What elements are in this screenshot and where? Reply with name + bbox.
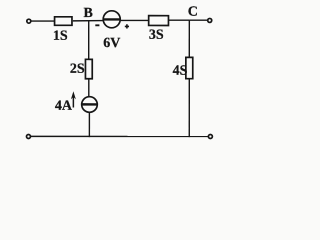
voltage source 6V bar bbox=[103, 18, 120, 20]
terminal bottom-right bbox=[208, 135, 212, 139]
wire top-left segment bbox=[31, 20, 54, 22]
resistor 2S bbox=[85, 59, 92, 78]
svg-text:1S: 1S bbox=[53, 29, 68, 44]
terminal top-right bbox=[208, 18, 212, 22]
wire bottom rail bbox=[31, 135, 208, 137]
svg-text:4S: 4S bbox=[173, 64, 188, 79]
wire node C branch vertical bbox=[188, 20, 190, 56]
svg-text:3S: 3S bbox=[149, 28, 164, 43]
resistor 1S bbox=[55, 17, 72, 26]
current direction arrow bbox=[71, 91, 76, 107]
wire 6V to 3S bbox=[120, 19, 149, 21]
terminal bottom-left bbox=[26, 134, 30, 138]
wire node C to right terminal bbox=[189, 19, 207, 21]
wire node B vertical drop bbox=[88, 20, 90, 58]
wire 4A source to bottom rail bbox=[88, 112, 90, 137]
resistor 3S bbox=[149, 16, 169, 26]
terminal top-left bbox=[27, 19, 31, 23]
svg-text:4A: 4A bbox=[55, 99, 73, 114]
current source 4A bar bbox=[82, 103, 97, 105]
svg-text:2S: 2S bbox=[70, 62, 85, 77]
svg-text:B: B bbox=[84, 6, 93, 21]
wire 3S to node C bbox=[169, 19, 190, 21]
plus sign bbox=[125, 24, 129, 28]
wire 4S to bottom rail bbox=[188, 78, 190, 137]
minus sign bbox=[95, 24, 99, 26]
wire 2S to 4A source bbox=[88, 79, 90, 97]
wire 1S to 6V source bbox=[73, 20, 104, 22]
voltage source U1 6V circle bbox=[103, 11, 120, 28]
svg-text:6V: 6V bbox=[103, 36, 120, 51]
svg-text:C: C bbox=[188, 5, 198, 20]
resistor 4S bbox=[186, 57, 193, 78]
current source I1 4A circle bbox=[82, 97, 98, 113]
